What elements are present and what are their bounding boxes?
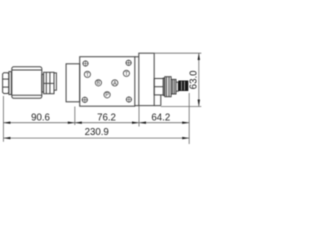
right end plate bbox=[139, 53, 154, 105]
ext line at body block bbox=[74, 107, 76, 126]
arrow 64.2 left bbox=[139, 122, 146, 124]
arrow 63 bottom bbox=[198, 100, 200, 107]
svg-text:P: P bbox=[105, 93, 109, 99]
port A bbox=[112, 80, 118, 86]
solenoid coil body bbox=[12, 67, 42, 99]
port B bbox=[95, 80, 101, 86]
dim line row 1 bbox=[3, 122, 189, 124]
left body block bbox=[66, 64, 80, 102]
solenoid end hex nut bbox=[3, 73, 9, 94]
washer bbox=[9, 72, 11, 95]
svg-text:B: B bbox=[97, 81, 101, 87]
arrow 76.2 left bbox=[75, 122, 82, 124]
retaining nut bbox=[44, 72, 54, 93]
washer 2 bbox=[54, 73, 56, 90]
svg-text:A: A bbox=[113, 81, 117, 87]
adjuster boss bbox=[154, 79, 163, 95]
bolt hole top-left bbox=[82, 60, 88, 66]
ext line 63 bottom bbox=[161, 106, 202, 108]
svg-text:90.6: 90.6 bbox=[31, 112, 50, 123]
port P bbox=[104, 92, 110, 98]
sub block bbox=[154, 95, 161, 106]
step ring bbox=[42, 74, 44, 92]
arrow 64.2 right bbox=[182, 122, 189, 124]
adjuster washer bbox=[163, 78, 165, 96]
dimensioning bbox=[3, 53, 201, 144]
arrow 230.9 right bbox=[182, 137, 189, 139]
arrow 76.2 right bbox=[132, 122, 139, 124]
ext line right bbox=[188, 93, 190, 144]
svg-text:230.9: 230.9 bbox=[85, 127, 109, 138]
bolt hole bottom-left bbox=[82, 97, 88, 103]
dim line row 2 bbox=[3, 137, 189, 139]
arrow 90.6 right bbox=[68, 122, 75, 124]
svg-text:63.0: 63.0 bbox=[189, 70, 200, 89]
arrow 90.6 left bbox=[3, 122, 10, 124]
port T left bbox=[84, 71, 90, 77]
knob neck bbox=[176, 82, 178, 91]
adjuster hex nut bbox=[165, 77, 171, 97]
bolt hole top-right bbox=[126, 60, 132, 66]
svg-text:76.2: 76.2 bbox=[97, 112, 116, 123]
knurled knob bbox=[178, 81, 188, 92]
valve face plate bbox=[80, 57, 135, 106]
dim line 63 bbox=[198, 53, 200, 107]
ext line left bbox=[2, 96, 4, 142]
adjuster cylinder bbox=[171, 79, 176, 94]
ext line 63 top bbox=[154, 52, 201, 54]
step strip bbox=[135, 57, 139, 106]
arrow 230.9 left bbox=[3, 137, 10, 139]
face pattern symbols bbox=[82, 60, 132, 103]
port T right bbox=[123, 70, 129, 76]
ext line at end plate bbox=[138, 106, 140, 127]
bolt hole bottom-right bbox=[126, 96, 132, 102]
arrow 63 top bbox=[198, 53, 200, 60]
svg-text:64.2: 64.2 bbox=[151, 112, 170, 123]
